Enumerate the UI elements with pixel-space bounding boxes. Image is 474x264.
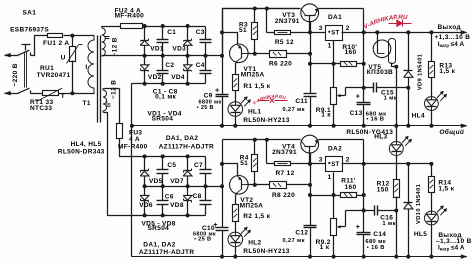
svg-text:0,1 мк: 0,1 мк	[155, 94, 176, 101]
svg-text:160: 160	[345, 49, 357, 56]
svg-text:VD6: VD6	[139, 202, 153, 209]
svg-text:1,5 к: 1,5 к	[439, 68, 455, 75]
svg-text:0,27 мк: 0,27 мк	[282, 107, 305, 113]
svg-text:AZ1117H-ADJTR: AZ1117H-ADJTR	[159, 144, 214, 151]
svg-text:МП25А: МП25А	[240, 202, 264, 209]
svg-text:3: 3	[319, 25, 323, 32]
svg-text:R8 220: R8 220	[272, 192, 295, 199]
svg-text:1 мк: 1 мк	[382, 221, 395, 227]
svg-text:VD9 1N5401: VD9 1N5401	[417, 53, 423, 90]
svg-text:SR504: SR504	[148, 225, 170, 232]
svg-text:1: 1	[328, 43, 332, 50]
svg-text:VD4: VD4	[171, 74, 185, 81]
svg-text:HL4: HL4	[412, 113, 425, 120]
svg-text:MF-R400: MF-R400	[118, 144, 148, 151]
svg-text:150: 150	[377, 186, 389, 193]
svg-text:MF-R400: MF-R400	[115, 13, 145, 20]
svg-text:RU1: RU1	[40, 65, 54, 72]
svg-text:DA1, DA2: DA1, DA2	[143, 241, 175, 248]
svg-text:U: U	[61, 55, 66, 62]
svg-text:51: 51	[239, 27, 247, 34]
svg-text:TVR20471: TVR20471	[37, 72, 71, 79]
svg-text:~12 В: ~12 В	[111, 80, 118, 99]
svg-text:1 к: 1 к	[321, 112, 331, 119]
svg-text:ST: ST	[331, 162, 339, 168]
svg-text:C8: C8	[193, 193, 202, 200]
svg-text:HL5: HL5	[414, 231, 427, 238]
svg-text:DA1: DA1	[328, 14, 342, 21]
svg-text:ESB76937S: ESB76937S	[10, 26, 49, 33]
svg-text:VD7: VD7	[170, 178, 184, 185]
svg-text:FU1 2 A: FU1 2 A	[43, 40, 69, 47]
svg-text:SR504: SR504	[152, 115, 174, 122]
svg-text:HL1: HL1	[248, 108, 261, 115]
svg-text:• 16 В: • 16 В	[366, 117, 384, 123]
svg-text:NTC33: NTC33	[30, 105, 52, 112]
svg-text:VD1: VD1	[150, 46, 164, 53]
svg-text:VD10 1N5401: VD10 1N5401	[416, 183, 422, 224]
svg-text:C4: C4	[196, 62, 205, 69]
svg-text:R1 1,5 к: R1 1,5 к	[243, 83, 270, 90]
svg-text:R6 220: R6 220	[269, 61, 292, 68]
svg-text:VD5: VD5	[149, 178, 163, 185]
svg-text:1 мк: 1 мк	[384, 95, 397, 101]
svg-text:C13: C13	[350, 110, 363, 117]
svg-text:Iнагр ≤4 А: Iнагр ≤4 А	[438, 41, 465, 48]
svg-text:C6: C6	[165, 194, 174, 201]
svg-text:2: 2	[346, 25, 350, 32]
svg-text:C5: C5	[167, 162, 176, 169]
svg-text:+: +	[215, 88, 219, 95]
svg-text:51: 51	[240, 160, 248, 167]
svg-text:C3: C3	[196, 29, 205, 36]
svg-text:1,5 к: 1,5 к	[438, 186, 454, 193]
svg-text:DA2: DA2	[328, 146, 342, 153]
svg-text:II': II'	[105, 101, 112, 107]
svg-text:R2 1,5 к: R2 1,5 к	[243, 213, 270, 220]
svg-text:VD2: VD2	[148, 74, 162, 81]
svg-text:C12: C12	[295, 230, 308, 237]
svg-text:R5 12: R5 12	[275, 39, 294, 46]
svg-text:• 25 В: • 25 В	[197, 105, 214, 111]
svg-text:RL50N-HY213: RL50N-HY213	[243, 117, 290, 124]
svg-text:МП25А: МП25А	[241, 71, 265, 78]
svg-text:~220 В: ~220 В	[12, 63, 19, 86]
svg-text:Общий: Общий	[439, 128, 464, 136]
svg-text:Iнагр ≤4 А: Iнагр ≤4 А	[438, 244, 465, 251]
svg-text:I: I	[85, 64, 87, 71]
svg-text:C2: C2	[165, 62, 174, 69]
svg-text:RL50N-HY213: RL50N-HY213	[243, 248, 290, 255]
svg-text:T1: T1	[83, 100, 91, 107]
svg-text:0,27 мк: 0,27 мк	[282, 238, 305, 244]
svg-text:AZ1117H-ADJTR: AZ1117H-ADJTR	[139, 249, 194, 256]
svg-text:• 16 В: • 16 В	[367, 245, 385, 251]
svg-text:2N3791: 2N3791	[272, 149, 297, 156]
svg-text:C1: C1	[167, 29, 176, 36]
svg-text:SA1: SA1	[23, 10, 37, 17]
svg-text:HL3: HL3	[374, 133, 387, 140]
svg-text:~12 В: ~12 В	[111, 37, 118, 56]
svg-text:C7: C7	[194, 162, 203, 169]
svg-text:160: 160	[345, 184, 357, 191]
svg-text:DA1, DA2: DA1, DA2	[166, 135, 198, 142]
svg-text:+: +	[356, 94, 360, 101]
svg-text:C14: C14	[373, 231, 386, 238]
svg-text:3: 3	[319, 156, 323, 163]
svg-text:HL2: HL2	[248, 240, 261, 247]
svg-text:C11: C11	[295, 98, 308, 105]
svg-text:RL50N-DR343: RL50N-DR343	[58, 149, 105, 156]
svg-text:VD3: VD3	[172, 46, 186, 53]
svg-text:ST: ST	[331, 31, 339, 37]
svg-text:• 25 В: • 25 В	[194, 237, 211, 243]
svg-text:4 A: 4 A	[129, 136, 140, 143]
svg-text:T: T	[61, 93, 65, 100]
svg-text:+: +	[356, 224, 360, 231]
svg-text:1: 1	[328, 174, 332, 181]
svg-text:R7 12: R7 12	[276, 170, 295, 177]
svg-text:Выход: Выход	[438, 24, 461, 31]
svg-text:1 к: 1 к	[320, 244, 330, 251]
svg-text:2: 2	[346, 156, 350, 163]
svg-text:2N3791: 2N3791	[275, 18, 300, 25]
svg-text:HL4, HL5: HL4, HL5	[71, 141, 102, 148]
svg-text:КП303В: КП303В	[367, 69, 393, 76]
svg-text:VD8: VD8	[170, 202, 184, 209]
